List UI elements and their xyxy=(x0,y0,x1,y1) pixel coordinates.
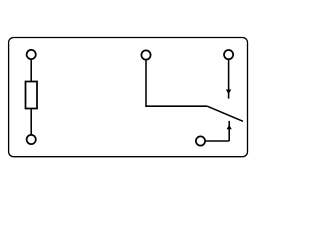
NO contact arrowhead xyxy=(227,125,232,130)
NO contact riser wire xyxy=(228,121,230,141)
wire coil top xyxy=(30,59,32,81)
wire coil bottom xyxy=(30,109,32,135)
coil terminal pin 1 (top-left) xyxy=(27,50,36,59)
NC contact arrowhead xyxy=(226,90,231,95)
coil terminal pin 2 (bottom-left) xyxy=(27,135,36,144)
common terminal pin (top-center) xyxy=(141,50,150,59)
coil K1 xyxy=(26,82,38,109)
NC contact wire xyxy=(228,59,230,98)
NO wire xyxy=(205,140,229,142)
NC terminal pin (top-right) xyxy=(224,50,233,59)
wire common to pivot xyxy=(146,60,207,107)
switch arm (movable contact) xyxy=(207,106,243,121)
NO terminal pin (bottom-right) xyxy=(196,136,205,145)
relay body outline xyxy=(9,38,248,157)
